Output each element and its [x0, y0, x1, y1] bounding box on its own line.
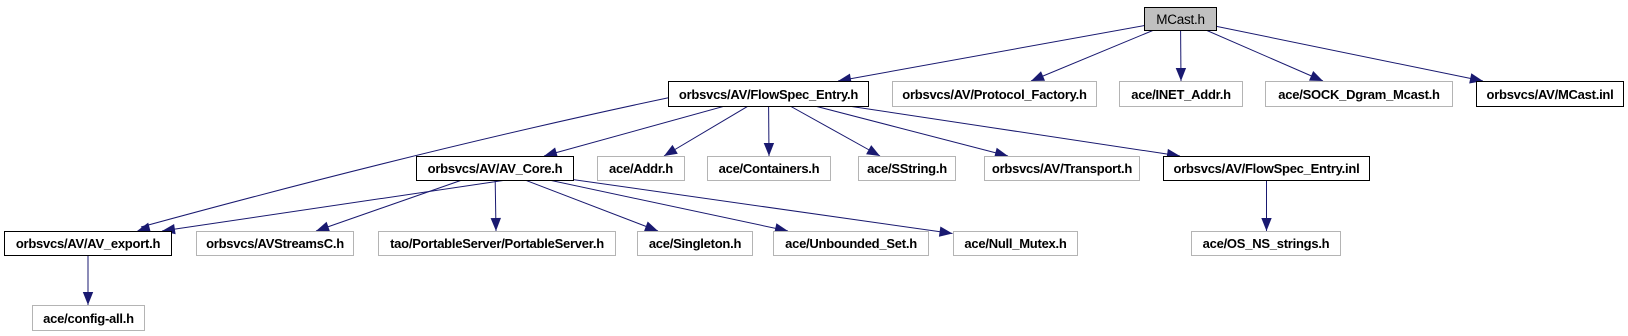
- wire orbsvcs/AV/FlowSpec_Entry.h to orbsvcs/AV/FlowSpec_Entry.inl: [769, 94, 1181, 156]
- wire MCast.h to ace/SOCK_Dgram_Mcast.h: [1181, 19, 1324, 81]
- wire orbsvcs/AV/FlowSpec_Entry.h to orbsvcs/AV/AV_export.h (spline routed above AV_Core.h): [141, 97, 672, 227]
- wire orbsvcs/AV/FlowSpec_Entry.h to orbsvcs/AV/Transport.h: [769, 94, 1009, 156]
- wire orbsvcs/AV/AV_Core.h to ace/Null_Mutex.h: [495, 169, 953, 234]
- node ace/config-all.h: [32, 305, 145, 331]
- wire orbsvcs/AV/AV_Core.h to orbsvcs/AVStreamsC.h: [316, 169, 495, 232]
- wire MCast.h to ace/INET_Addr.h: [1180, 19, 1183, 81]
- wire MCast.h to orbsvcs/AV/Protocol_Factory.h: [1031, 19, 1181, 81]
- node ace/SString.h: [858, 156, 956, 181]
- wire orbsvcs/AV/AV_Core.h to ace/Singleton.h: [495, 169, 658, 232]
- node ace/Containers.h: [707, 156, 831, 181]
- wire MCast.h to orbsvcs/AV/MCast.inl: [1181, 19, 1484, 81]
- wire orbsvcs/AV/FlowSpec_Entry.h to ace/SString.h: [769, 94, 881, 156]
- wire orbsvcs/AV/FlowSpec_Entry.inl to ace/OS_NS_strings.h: [1266, 180, 1268, 231]
- node ace/SOCK_Dgram_Mcast.h: [1265, 81, 1453, 107]
- node orbsvcs/AV/Transport.h: [984, 156, 1140, 181]
- wire orbsvcs/AV/AV_Core.h to tao/PortableServer/PortableServer.h: [495, 169, 496, 232]
- node ace/Null_Mutex.h: [953, 231, 1078, 256]
- wire MCast.h to orbsvcs/AV/FlowSpec_Entry.h: [838, 19, 1181, 81]
- wire orbsvcs/AV/FlowSpec_Entry.h to ace/Addr.h: [664, 94, 769, 156]
- wire orbsvcs/AV/AV_Core.h to ace/Unbounded_Set.h: [495, 169, 788, 232]
- node ace/Addr.h: [597, 156, 685, 181]
- node orbsvcs/AV/FlowSpec_Entry.h: [668, 81, 869, 107]
- wire orbsvcs/AV/FlowSpec_Entry.h to orbsvcs/AV/AV_Core.h: [544, 94, 769, 156]
- node orbsvcs/AV/AV_export.h: [4, 231, 172, 256]
- wire orbsvcs/AV/FlowSpec_Entry.h to ace/Containers.h: [768, 94, 771, 156]
- node orbsvcs/AV/Protocol_Factory.h: [892, 81, 1097, 107]
- node orbsvcs/AVStreamsC.h: [196, 231, 354, 256]
- node ace/INET_Addr.h: [1119, 81, 1243, 107]
- wire orbsvcs/AV/AV_Core.h to orbsvcs/AV/AV_export.h: [162, 170, 574, 231]
- node orbsvcs/AV/FlowSpec_Entry.inl: [1163, 156, 1370, 181]
- node MCast.h: [1144, 7, 1217, 31]
- wire orbsvcs/AV/AV_export.h to ace/config-all.h: [87, 255, 89, 305]
- node ace/Unbounded_Set.h: [773, 231, 929, 256]
- node ace/OS_NS_strings.h: [1191, 231, 1341, 256]
- node orbsvcs/AV/MCast.inl: [1476, 81, 1624, 107]
- node tao/PortableServer/PortableServer.h: [378, 231, 616, 256]
- node orbsvcs/AV/AV_Core.h: [416, 156, 574, 181]
- node ace/Singleton.h: [637, 231, 753, 256]
